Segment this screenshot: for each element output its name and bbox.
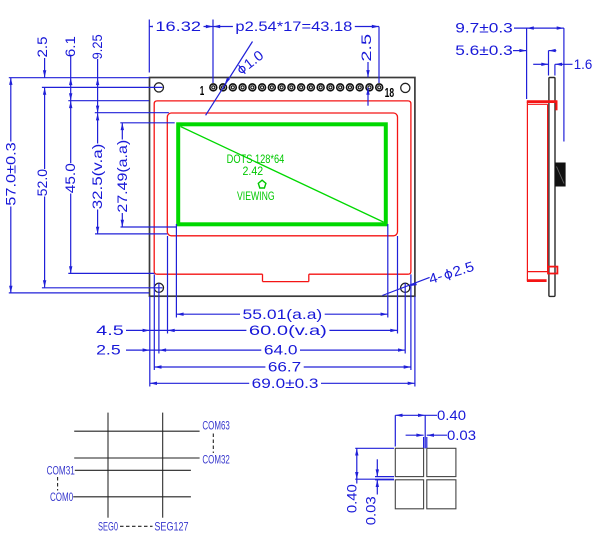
dimension 16.32: [149, 18, 213, 34]
dimension 45.0: [62, 101, 78, 274]
ext line dot left edge: [394, 415, 396, 446]
ext line bezel-left below: [167, 236, 169, 334]
mounting hole bottom-left: [154, 283, 163, 292]
extension line bottom hole center: [42, 287, 163, 289]
grid vertical line SEG0: [107, 413, 109, 518]
dimension 57.0±0.3: [2, 78, 18, 293]
label SEG0: [98, 519, 118, 533]
dimension 66.7: [154, 359, 411, 375]
side bezel bottom lip: [548, 267, 557, 274]
side ext line outer right: [563, 28, 565, 141]
side ext line pcb left: [548, 51, 550, 76]
ext line module-left below: [149, 296, 151, 386]
svg-text:45.0: 45.0: [62, 163, 78, 193]
side glass top edge: [527, 103, 547, 105]
side ext line front face: [526, 28, 528, 99]
dot square top-right: [427, 448, 456, 476]
side ext line pcb right: [554, 64, 556, 75]
dimension 27.49(a.a): [114, 123, 130, 227]
label 2.42: [243, 164, 264, 178]
svg-text:66.7: 66.7: [268, 359, 302, 375]
svg-text:52.0: 52.0: [34, 169, 50, 197]
svg-text:9.7±0.3: 9.7±0.3: [455, 20, 513, 36]
dimension 0.03 horizontal: [406, 427, 477, 443]
side glass right edge: [547, 104, 549, 271]
extension line pin18: [378, 27, 380, 84]
label DOTS 128*64: [227, 152, 285, 166]
dimension 2.5 top-left: [34, 36, 50, 77]
svg-text:VIEWING: VIEWING: [237, 189, 275, 203]
PCB inner outline (66.7mm, red): [154, 101, 411, 274]
dimension 5.6±0.3: [455, 42, 556, 58]
extension line module left top: [148, 20, 150, 73]
dimension 2.5 pin row offset: [358, 34, 374, 106]
ext line bezel-right below: [397, 236, 399, 334]
pin 18 label: [385, 85, 395, 100]
svg-text:9.25: 9.25: [89, 34, 105, 59]
svg-text:4-: 4-: [427, 268, 445, 287]
svg-text:32.5(v.a): 32.5(v.a): [89, 144, 105, 210]
ext line pcb-left below: [153, 274, 155, 370]
side glass bottom edge: [527, 271, 548, 273]
dimension 9.7±0.3: [455, 20, 564, 36]
svg-text:2.5: 2.5: [34, 36, 50, 57]
svg-text:5.6±0.3: 5.6±0.3: [455, 42, 513, 58]
display diagonal line: [181, 127, 384, 223]
dimension 2.5 bottom-left: [96, 342, 159, 358]
svg-text:COM0: COM0: [50, 490, 73, 504]
extension line hole center: [42, 86, 163, 88]
label COM0: [50, 490, 73, 504]
svg-text:0.40: 0.40: [344, 484, 360, 513]
ext line dot top edge: [355, 447, 394, 449]
dimension 6.1: [62, 36, 78, 101]
dot square top-left: [395, 448, 423, 476]
svg-text:COM32: COM32: [202, 453, 230, 467]
dashed link COM31-COM0: [57, 477, 59, 491]
label COM32: [202, 453, 230, 467]
svg-text:60.0(v.a): 60.0(v.a): [249, 322, 327, 338]
label SEG127: [154, 519, 188, 533]
svg-text:16.32: 16.32: [155, 18, 201, 34]
side view PCB: [549, 78, 555, 297]
dimension 4.5: [96, 322, 167, 338]
svg-text:1: 1: [200, 83, 205, 98]
extension line display top: [120, 122, 174, 124]
grid horizontal line COM32: [74, 457, 199, 459]
dimension 32.5(v.a): [89, 113, 105, 234]
svg-text:4.5: 4.5: [96, 322, 124, 338]
svg-text:2.5: 2.5: [451, 258, 476, 280]
label VIEWING: [237, 189, 275, 203]
mounting hole top-right: [401, 83, 410, 92]
svg-text:COM31: COM31: [47, 463, 75, 477]
svg-text:55.01(a.a): 55.01(a.a): [243, 306, 323, 322]
extension line module bottom: [9, 292, 150, 294]
ext line module-right below: [414, 296, 416, 386]
grid horizontal line COM63: [74, 430, 199, 432]
label COM63: [202, 419, 230, 433]
display window frame (green): [178, 124, 386, 224]
ext line pcb-right below: [410, 274, 412, 370]
ext line gap left edge: [423, 437, 425, 448]
dot square bottom-right: [427, 480, 456, 509]
svg-text:p2.54*17=43.18: p2.54*17=43.18: [235, 18, 352, 34]
dimension 1.6: [533, 56, 592, 72]
mounting hole top-left: [154, 83, 163, 92]
pin pads row 1-18: [210, 84, 383, 91]
svg-text:1.6: 1.6: [574, 56, 593, 72]
svg-text:2.5: 2.5: [358, 34, 374, 62]
extension line pcb bottom: [68, 272, 154, 274]
dimension 0.40 horizontal: [395, 407, 466, 423]
ext line hole-right below: [404, 283, 406, 354]
svg-text:2.42: 2.42: [243, 164, 264, 178]
extension line bezel top: [95, 112, 169, 114]
side view backlight tab: [555, 163, 566, 187]
pin 1 label: [200, 83, 205, 98]
side bezel bottom bar: [527, 279, 547, 282]
ext line gap right edge: [426, 437, 428, 448]
svg-text:SEG127: SEG127: [154, 519, 188, 533]
ext line display-right below: [387, 224, 389, 318]
svg-text:SEG0: SEG0: [98, 519, 118, 533]
svg-text:57.0±0.3: 57.0±0.3: [2, 142, 18, 206]
grid horizontal line COM0: [73, 496, 191, 498]
extension line pin1: [212, 20, 214, 84]
ext line display-left below: [175, 224, 177, 318]
dimension 52.0: [34, 88, 50, 288]
extension line module top: [9, 77, 150, 79]
dimension 60.0(v.a): [168, 322, 398, 338]
dimension 0.40 vertical: [344, 448, 360, 513]
ext line row gap bottom: [375, 479, 394, 481]
bottom connector notch (red): [263, 274, 309, 281]
dimension 69.0±0.3: [150, 375, 415, 391]
ext line hole-left below: [158, 283, 160, 354]
viewing direction pentagon symbol: [258, 180, 266, 188]
grid vertical line SEG127: [162, 413, 164, 518]
dot square bottom-left: [395, 480, 423, 509]
svg-text:COM63: COM63: [202, 419, 230, 433]
svg-text:69.0±0.3: 69.0±0.3: [252, 375, 319, 391]
dimension p2.54*17=43.18: [213, 18, 379, 34]
extension line pcb top: [68, 100, 149, 102]
label COM31: [47, 463, 75, 477]
svg-text:2.5: 2.5: [96, 342, 121, 358]
side bezel top bar: [527, 100, 558, 103]
dimension 55.01(a.a): [176, 306, 387, 322]
bezel outline (64.0mm, red rounded): [167, 113, 397, 236]
svg-text:18: 18: [385, 85, 395, 100]
svg-text:0.40: 0.40: [437, 407, 466, 423]
grid horizontal line COM31: [75, 469, 191, 471]
dashed link COM63-COM32: [212, 434, 214, 454]
leader 4-φ2.5 (mounting holes): [382, 258, 476, 296]
svg-text:0.03: 0.03: [447, 427, 476, 443]
ext line dot row gap center: [355, 478, 394, 480]
dimension 64.0: [159, 342, 405, 358]
extension line display bottom: [121, 226, 177, 228]
dashed link SEG0-SEG127: [120, 525, 153, 527]
LCD module front outline: [150, 78, 415, 297]
dimension 0.03 vertical: [363, 459, 379, 525]
ext line row gap top: [375, 476, 394, 478]
svg-text:0.03: 0.03: [363, 496, 379, 525]
svg-text:64.0: 64.0: [264, 342, 298, 358]
svg-text:6.1: 6.1: [62, 36, 78, 57]
svg-text:27.49(a.a): 27.49(a.a): [114, 140, 130, 213]
side bezel top lip: [555, 101, 557, 110]
leader φ1.0 (hole diameter): [206, 42, 267, 116]
ext line dot gap center: [424, 415, 426, 448]
mounting hole bottom-right: [401, 283, 410, 292]
dimension 9.25: [89, 34, 105, 113]
extension line bezel bottom: [95, 233, 167, 235]
side glass left edge: [526, 102, 528, 282]
